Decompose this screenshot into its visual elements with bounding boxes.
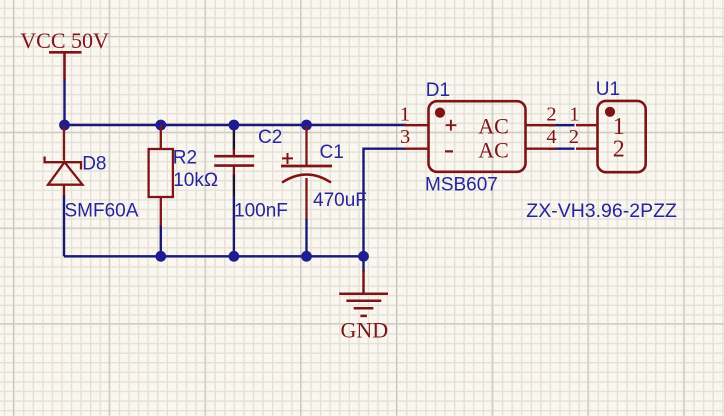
diode D8 (zener TVS)	[45, 125, 83, 196]
svg-text:VCC 50V: VCC 50V	[20, 28, 109, 53]
power port VCC	[49, 52, 82, 79]
svg-text:AC: AC	[478, 113, 509, 138]
junction bottom rail at C1	[301, 251, 312, 262]
svg-text:C2: C2	[258, 127, 282, 148]
svg-text:3: 3	[400, 126, 410, 148]
wire D1 pin4 to U1 pin2	[548, 147, 575, 149]
pin 1 marker dot U1	[605, 107, 615, 117]
junction bottom rail at C2	[229, 251, 240, 262]
svg-text:C1: C1	[320, 142, 344, 163]
wire D8 anode to bottom rail	[63, 195, 65, 256]
svg-text:2: 2	[569, 126, 579, 148]
svg-text:2: 2	[613, 137, 625, 163]
bridge rectifier D1	[405, 101, 557, 172]
wire D1 pin3 to ground net	[364, 149, 407, 257]
svg-text:R2: R2	[173, 148, 197, 169]
capacitor C1 (polarized)	[281, 126, 332, 219]
junction bottom rail at GND	[358, 251, 369, 262]
junction top rail at C2	[229, 120, 240, 131]
resistor R2	[149, 125, 173, 226]
junction top rail at VCC/D8	[59, 120, 70, 131]
svg-text:GND: GND	[341, 317, 389, 342]
wire VCC stem	[63, 79, 65, 126]
svg-text:470uF: 470uF	[313, 190, 367, 211]
svg-text:U1: U1	[596, 79, 620, 100]
svg-text:1: 1	[569, 103, 579, 125]
wire C2 top stub (wire over pin appears dark)	[233, 128, 235, 151]
svg-text:2: 2	[546, 103, 556, 125]
junction bottom rail at R2	[155, 251, 166, 262]
wire D1 pin2 to U1 pin1	[548, 124, 575, 126]
capacitor C2	[214, 149, 254, 175]
wire C2 bottom to bottom rail	[233, 174, 235, 196]
svg-text:SMF60A: SMF60A	[65, 201, 139, 222]
svg-text:MSB607: MSB607	[425, 175, 498, 196]
pin 1 marker dot D1	[435, 108, 445, 118]
svg-text:4: 4	[546, 126, 556, 148]
wire bottom rail	[64, 255, 364, 257]
svg-text:AC: AC	[478, 137, 509, 162]
wire GND drop	[362, 256, 364, 272]
svg-text:10kΩ: 10kΩ	[173, 170, 218, 191]
connector U1	[576, 101, 646, 172]
svg-text:D8: D8	[82, 154, 106, 175]
svg-text:1: 1	[400, 104, 410, 126]
svg-text:D1: D1	[426, 80, 450, 101]
svg-text:ZX-VH3.96-2PZZ: ZX-VH3.96-2PZZ	[526, 200, 677, 222]
wire C1 bottom to bottom rail	[305, 219, 307, 257]
svg-text:100nF: 100nF	[234, 201, 288, 222]
wire top rail	[65, 124, 407, 126]
junction top rail at R2	[155, 120, 166, 131]
wire R2 bottom to bottom rail	[160, 225, 162, 256]
ground symbol	[339, 270, 388, 316]
junction top rail at C1	[301, 120, 312, 131]
